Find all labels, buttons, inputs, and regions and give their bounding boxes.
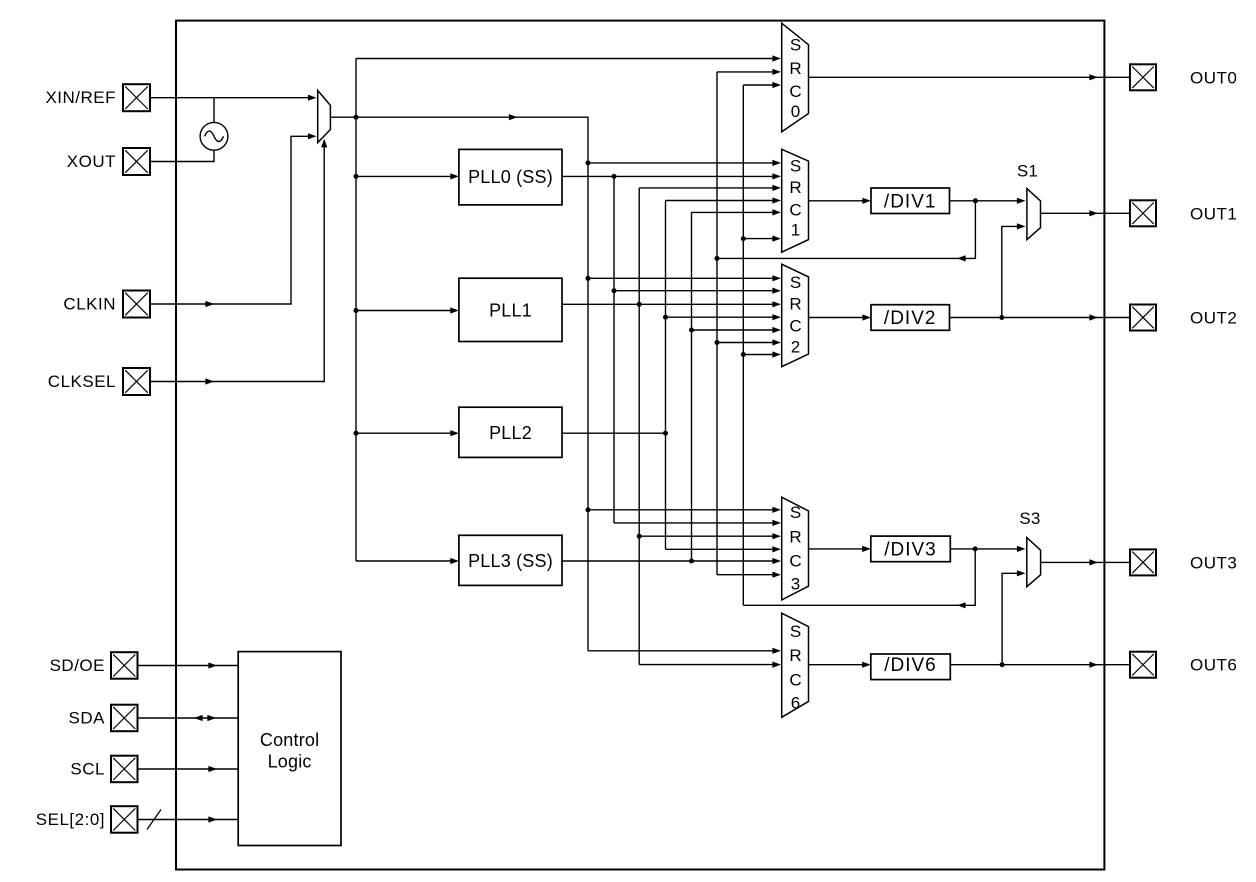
wire CLKSEL to mux M0 select: [151, 146, 325, 382]
arrow DIV1 feedback: [957, 255, 966, 261]
wire REF to SRC2 input 0: [588, 277, 774, 279]
net PLL0 vertical: [613, 176, 615, 523]
svg-text:R: R: [789, 59, 801, 78]
arrow into SRC2 input 2: [772, 301, 781, 307]
wire PLL1 output to SRC2 input 2: [562, 303, 774, 305]
arrow into SRC2 input 0: [772, 275, 781, 281]
svg-text:S: S: [790, 36, 801, 55]
arrow into DIV1: [862, 198, 871, 204]
wire bus to PLL2: [356, 432, 451, 434]
mux S3: [1027, 538, 1041, 587]
divider /DIV3: [871, 536, 951, 562]
arrow into SRC1 input 5: [772, 236, 781, 242]
arrow into DIV3: [862, 546, 871, 552]
wire S3 output to OUT3: [1041, 561, 1130, 563]
wire DIV1 fb to SRC3 input 5: [717, 574, 774, 576]
arrow into SRC2 input 5: [772, 339, 781, 345]
arrow into OUT1: [1089, 210, 1098, 216]
svg-text:S: S: [790, 622, 801, 641]
wire PLL2 to SRC3 input 3: [666, 548, 775, 550]
arrow into SRC2 input 6: [772, 351, 781, 357]
PLL2 block: [459, 407, 562, 457]
output pad OUT3: [1130, 549, 1156, 575]
junction DIV2 output: [999, 315, 1004, 320]
wire PLL0 to SRC2 input 1: [614, 290, 774, 292]
svg-text:R: R: [789, 646, 801, 665]
arrow mid reference: [509, 114, 518, 120]
svg-text:OUT3: OUT3: [1190, 553, 1237, 572]
junction bus PLL0 tap: [354, 174, 359, 179]
svg-text:CLKSEL: CLKSEL: [48, 372, 116, 391]
arrow into SRC2 input 3: [772, 314, 781, 320]
wire XOUT to crystal: [151, 150, 215, 161]
svg-text:Logic: Logic: [268, 752, 312, 772]
mux SRC0: [782, 23, 809, 132]
junction DIV3 fb/SRC1: [741, 236, 746, 241]
svg-text:S: S: [790, 503, 801, 522]
junction DIV1 output: [973, 198, 978, 203]
wire REF to SRC3 input 0: [588, 509, 774, 511]
svg-text:OUT2: OUT2: [1190, 309, 1237, 328]
junction DIV3 fb/SRC2: [741, 352, 746, 357]
arrow into OUT3: [1089, 559, 1098, 565]
pin pad SD/OE: [111, 652, 138, 679]
wire DIV3 to S3: [950, 548, 1019, 550]
arrow into S1 input 0: [1017, 198, 1026, 204]
arrow into SRC3 input 3: [772, 546, 781, 552]
mux SRC3: [782, 497, 809, 600]
net PLL1 vertical: [638, 188, 640, 665]
junction REF/SRC2: [586, 276, 591, 281]
wire PLL1 to SRC1 input 2: [639, 187, 774, 189]
svg-text:PLL2: PLL2: [489, 423, 532, 443]
pin pad CLKIN: [123, 291, 150, 318]
svg-text:R: R: [789, 527, 801, 546]
wire bus to PLL1: [356, 310, 451, 312]
arrow into mux M0 select: [321, 139, 327, 148]
junction REF/SRC3: [586, 507, 591, 512]
junction DIV1 fb/SRC2: [715, 340, 720, 345]
wire bus to PLL3: [356, 560, 451, 562]
svg-text:S: S: [790, 273, 801, 292]
wire bus to PLL0: [356, 175, 451, 177]
mux SRC1: [782, 149, 809, 252]
net REF vertical: [587, 117, 589, 651]
pin pad SDA: [111, 705, 138, 732]
svg-text:/DIV3: /DIV3: [884, 539, 937, 560]
arrow into SRC3 input 1: [772, 520, 781, 526]
wire SEL[2:0] to control logic: [138, 819, 239, 821]
svg-text:/DIV2: /DIV2: [884, 308, 937, 329]
wire PLL1 to SRC6 input 1: [639, 664, 774, 666]
wire SRC1 output to DIV1: [809, 200, 865, 202]
arrow mid CLKIN: [205, 301, 214, 307]
arrow into S3 input 1: [1017, 570, 1026, 576]
divider /DIV2: [871, 305, 950, 331]
divider /DIV6: [871, 654, 951, 680]
svg-text:SEL[2:0]: SEL[2:0]: [36, 810, 105, 829]
wire DIV3 fb to SRC2 input 6: [743, 354, 774, 356]
arrow into SRC3 input 2: [772, 533, 781, 539]
svg-text:XOUT: XOUT: [67, 152, 116, 171]
wire PLL2 to SRC2 input 3: [666, 316, 775, 318]
svg-text:R: R: [789, 178, 801, 197]
arrow into SRC2 input 1: [772, 288, 781, 294]
arrow mid SCL: [208, 766, 217, 772]
wire PLL2 to SRC1 input 3: [666, 200, 775, 202]
svg-text:1: 1: [791, 221, 800, 240]
svg-text:0: 0: [791, 102, 800, 121]
svg-text:CLKIN: CLKIN: [63, 295, 116, 314]
wire CLKIN to mux M0: [151, 136, 310, 304]
wire PLL3 to SRC2 input 4: [692, 329, 775, 331]
junction PLL0 output: [612, 174, 617, 179]
junction bus PLL1 tap: [354, 308, 359, 313]
wire SD/OE to control logic: [138, 665, 239, 667]
net PLL2 vertical: [665, 201, 667, 550]
net DIV3 feedback vertical: [742, 85, 744, 605]
bus width slash SEL[2:0]: [147, 810, 161, 830]
output pad OUT2: [1130, 305, 1156, 331]
junction PLL3/SRC2: [689, 328, 694, 333]
wire PLL3 to SRC1 input 4: [692, 211, 775, 213]
svg-text:OUT0: OUT0: [1190, 68, 1237, 87]
arrow into SRC1 input 4: [772, 209, 781, 215]
arrow into SRC1 input 0: [772, 160, 781, 166]
arrow SDA bidirectional right: [207, 715, 216, 721]
wire SDA to control logic: [138, 717, 239, 719]
arrow into OUT6: [1089, 662, 1098, 668]
arrow into SRC6 input 1: [772, 662, 781, 668]
svg-text:2: 2: [791, 338, 800, 357]
mux M0 (input clock select): [318, 90, 331, 142]
reference bus vertical: [355, 59, 357, 562]
arrow into mux M0 input 0: [308, 95, 317, 101]
wire REF to SRC1 input 0: [588, 162, 774, 164]
chip boundary: [176, 21, 1104, 870]
wire DIV2 tap to S1 input 1: [1002, 226, 1019, 317]
svg-text:XIN/REF: XIN/REF: [45, 88, 116, 107]
svg-text:6: 6: [791, 694, 800, 713]
svg-text:S3: S3: [1019, 509, 1040, 528]
wire PLL3 output to SRC3 input 4: [562, 560, 774, 562]
arrow into OUT2: [1089, 314, 1098, 320]
control logic block: [238, 652, 341, 846]
wire PLL2 output: [562, 432, 666, 434]
mux S1: [1027, 189, 1041, 240]
wire DIV3 feedback: [743, 549, 975, 605]
svg-text:PLL0 (SS): PLL0 (SS): [468, 167, 553, 187]
svg-text:3: 3: [791, 575, 800, 594]
junction REF/SRC1: [586, 160, 591, 165]
svg-text:Control: Control: [260, 730, 319, 750]
arrow into SRC0 input 2: [772, 82, 781, 88]
wire REF to SRC6 input 0: [588, 650, 774, 652]
wire DIV3 fb to SRC1 input 5: [743, 238, 774, 240]
arrow mid SD/OE: [208, 662, 217, 668]
wire XIN/REF tap to crystal: [213, 98, 215, 123]
wire SRC3 output to DIV3: [809, 548, 865, 550]
svg-text:C: C: [789, 671, 801, 690]
svg-text:/DIV6: /DIV6: [884, 655, 937, 676]
pin pad XIN/REF: [123, 84, 150, 111]
pin pad XOUT: [123, 148, 150, 175]
arrow into SRC1 input 3: [772, 197, 781, 203]
wire DIV3 fb to SRC0 input 2: [743, 84, 774, 86]
crystal oscillator Y1: [200, 122, 228, 150]
wire mux M0 output: [330, 116, 588, 118]
PLL3 block: [459, 535, 562, 585]
pin pad CLKSEL: [123, 368, 150, 395]
net PLL3 vertical: [691, 212, 693, 561]
arrow into SRC3 input 4: [772, 558, 781, 564]
svg-text:OUT1: OUT1: [1190, 204, 1237, 223]
arrow mid CLKSEL: [205, 378, 214, 384]
svg-text:C: C: [789, 201, 801, 220]
junction PLL2/SRC2: [663, 315, 668, 320]
PLL1 block: [459, 278, 562, 341]
wire reference to SRC0 input 0: [356, 58, 774, 60]
pin pad SCL: [111, 756, 138, 783]
svg-text:R: R: [789, 295, 801, 314]
junction PLL3 output: [689, 559, 694, 564]
divider /DIV1: [871, 188, 950, 214]
svg-text:SCL: SCL: [70, 760, 105, 779]
wire DIV1 feedback: [717, 201, 975, 259]
wire DIV1 to S1: [950, 200, 1020, 202]
output pad OUT1: [1130, 200, 1156, 226]
junction PLL1/SRC3: [637, 534, 642, 539]
arrow DIV3 feedback: [957, 602, 966, 608]
wire PLL1 to SRC3 input 2: [639, 535, 774, 537]
wire XIN/REF to mux M0: [151, 97, 310, 99]
wire DIV6 to OUT6: [950, 664, 1130, 666]
junction bus PLL2 tap: [354, 431, 359, 436]
svg-text:SD/OE: SD/OE: [50, 656, 105, 675]
arrow into PLL2: [450, 430, 459, 436]
junction DIV6 output: [1000, 662, 1005, 667]
arrow into SRC0 input 0: [772, 55, 781, 61]
svg-text:PLL1: PLL1: [489, 301, 532, 321]
pin pad SEL[2:0]: [111, 806, 138, 833]
arrow into SRC1 input 1: [772, 173, 781, 179]
wire DIV1 fb to SRC0 input 1: [717, 71, 774, 73]
junction mux output / bus: [354, 115, 359, 120]
mux SRC6: [782, 613, 809, 717]
wire SRC6 output to DIV6: [809, 664, 865, 666]
arrow into PLL0: [450, 173, 459, 179]
svg-text:C: C: [789, 552, 801, 571]
wire SRC0 output to OUT0: [809, 76, 1131, 78]
arrow SDA bidirectional left: [194, 715, 203, 721]
svg-text:C: C: [789, 82, 801, 101]
svg-text:/DIV1: /DIV1: [884, 191, 937, 212]
wire PLL0 to SRC3 input 1: [614, 522, 774, 524]
wire SCL to control logic: [138, 768, 239, 770]
arrow into S3 input 0: [1017, 546, 1026, 552]
arrow into DIV2: [862, 314, 871, 320]
arrow into SRC0 input 1: [772, 69, 781, 75]
output pad OUT0: [1130, 64, 1156, 90]
wire DIV1 fb to SRC2 input 5: [717, 342, 774, 344]
arrow into PLL3: [450, 558, 459, 564]
arrow into S1 input 1: [1017, 223, 1026, 229]
wire PLL0 output to SRC1 input 1: [562, 175, 774, 177]
junction PLL2 output: [663, 431, 668, 436]
svg-text:S1: S1: [1017, 162, 1038, 181]
wire DIV2 to OUT2: [950, 317, 1131, 319]
wire S1 output to OUT1: [1041, 212, 1131, 214]
wire DIV6 tap to S3 input 1: [1002, 573, 1019, 664]
arrow into PLL1: [450, 307, 459, 313]
arrow into SRC6 input 0: [772, 648, 781, 654]
junction DIV1 fb: [715, 256, 720, 261]
net DIV1 feedback vertical: [716, 72, 718, 575]
arrow into SRC3 input 5: [772, 572, 781, 578]
wire SRC2 output to DIV2: [809, 317, 865, 319]
arrow into OUT0: [1089, 74, 1098, 80]
junction PLL1 output: [637, 302, 642, 307]
svg-text:PLL3 (SS): PLL3 (SS): [468, 551, 553, 571]
svg-text:S: S: [790, 156, 801, 175]
junction DIV3 output: [973, 546, 978, 551]
output pad OUT6: [1130, 652, 1156, 678]
arrow into mux M0 input 1: [308, 133, 317, 139]
svg-text:OUT6: OUT6: [1190, 656, 1237, 675]
arrow into SRC3 input 0: [772, 507, 781, 513]
arrow mid SEL[2:0]: [208, 816, 217, 822]
PLL0 block: [459, 149, 562, 205]
arrow into DIV6: [862, 662, 871, 668]
mux SRC2: [782, 264, 809, 367]
junction PLL0/SRC2: [612, 288, 617, 293]
arrow into SRC2 input 4: [772, 327, 781, 333]
svg-text:C: C: [789, 317, 801, 336]
svg-text:SDA: SDA: [69, 709, 106, 728]
arrow into SRC1 input 2: [772, 185, 781, 191]
